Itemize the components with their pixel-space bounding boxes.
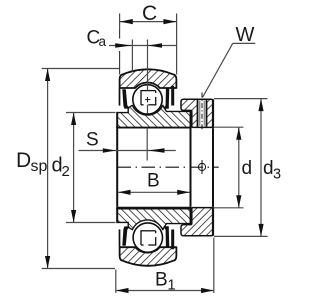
svg-text:3: 3 [273,167,281,183]
dimension d [214,127,253,208]
seal lip upper-left [119,89,121,106]
bearing left face silhouette through bore [116,128,118,207]
dimension Ca [87,28,177,114]
dimension S [79,128,176,161]
svg-text:S: S [86,130,99,151]
inner ring upper cross-section [116,105,191,128]
seal upper-right [163,88,169,109]
dimension Dsp [16,69,119,269]
ball upper [133,85,162,114]
seal lip upper-right [171,86,174,106]
svg-text:D: D [16,149,31,172]
svg-text:a: a [99,34,107,49]
seal lower-right [163,226,169,247]
svg-text:B: B [155,270,168,291]
ball lower [133,223,162,252]
collar silhouette edges through bore [190,128,192,207]
cage (dashed) lower [140,231,156,245]
dimension C [120,2,177,75]
locking collar upper cross-section [181,93,213,132]
second set screw hole seen through bore (circle with cross) [198,160,205,174]
seal lip lower-left [119,229,121,246]
seal lip lower-right [171,230,174,250]
seal upper-left [122,89,130,108]
svg-text:2: 2 [62,163,70,180]
outer ring lower cross-section [120,247,177,266]
svg-text:d: d [263,158,274,179]
label W with leader to set screw [203,24,256,98]
dimension B [118,171,190,195]
svg-text:B: B [147,171,160,192]
svg-text:sp: sp [31,158,48,175]
dimension d3 [214,99,281,237]
seal lower-left [122,226,130,245]
extension line, outer ring left side face (interrupted at Ca arrow) [119,30,121,39]
svg-text:d: d [242,158,253,179]
locking collar lower cross-section [181,207,213,236]
dimension B1 [116,238,214,294]
dimension d2 [52,113,116,223]
outer ring upper cross-section [120,69,177,88]
inner ring lower cross-section [116,207,191,230]
set screw W (hole + thread lines) [198,100,206,126]
svg-text:W: W [236,24,255,46]
cage (dashed) upper [140,91,156,105]
centerline (axis, dash-dot) [118,166,219,168]
